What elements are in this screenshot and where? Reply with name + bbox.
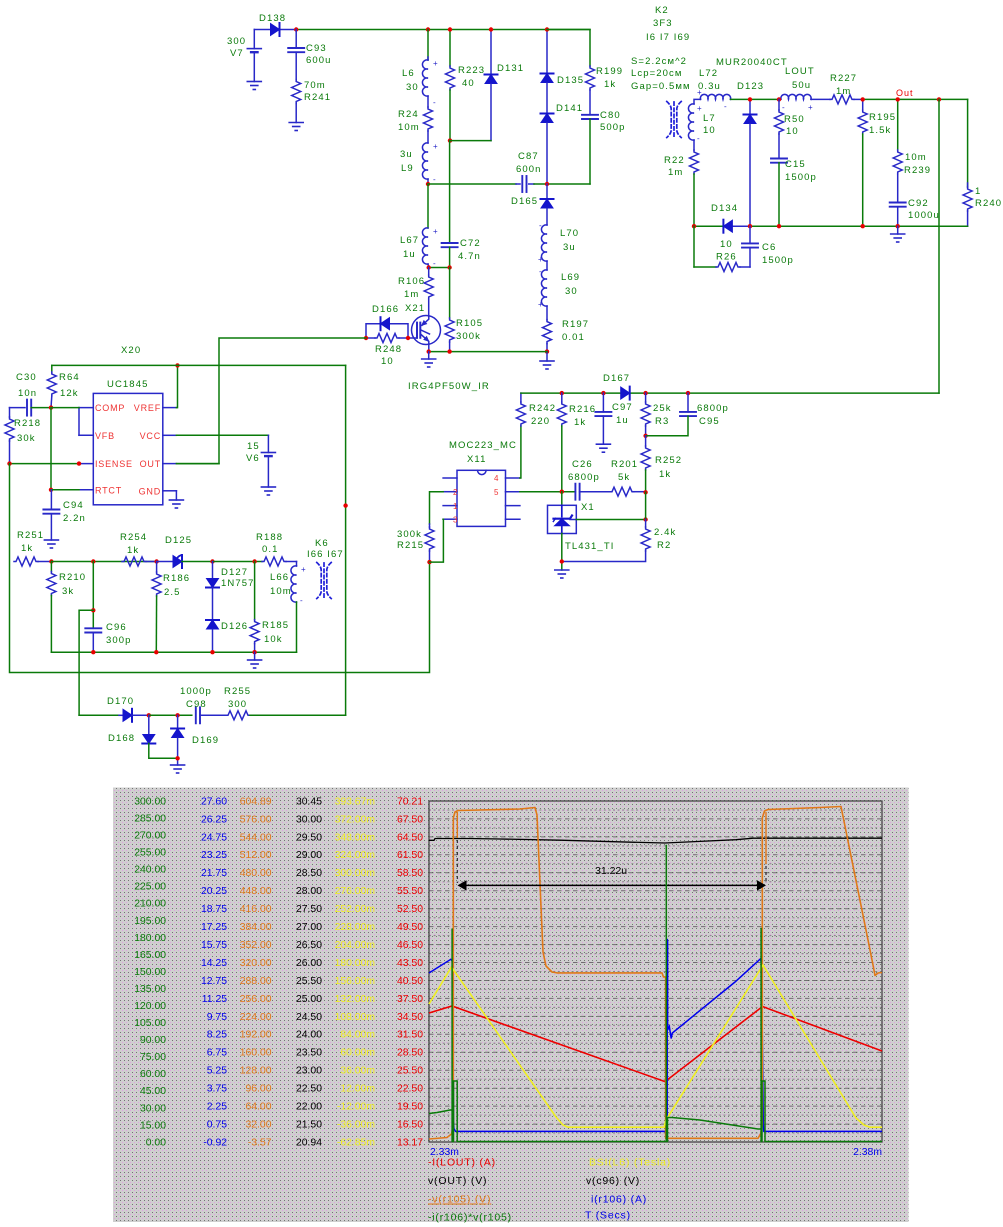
svg-text:70.21: 70.21 [397, 796, 423, 807]
svg-text:Lcp=20cм: Lcp=20cм [631, 68, 683, 79]
ground under V6 [261, 487, 275, 495]
ground under R185 [248, 652, 262, 668]
junction node C96 bottom [91, 650, 95, 654]
ground under R241 [289, 123, 303, 131]
svg-text:v(c96) (V): v(c96) (V) [586, 1175, 640, 1187]
svg-text:108.00m: 108.00m [335, 1012, 375, 1023]
svg-text:D170: D170 [107, 696, 134, 707]
svg-text:10m: 10m [905, 152, 927, 163]
ground under TL431 [555, 570, 569, 578]
svg-text:10k: 10k [264, 634, 283, 645]
svg-text:D125: D125 [165, 535, 192, 546]
svg-text:49.50: 49.50 [397, 922, 423, 933]
svg-text:1k: 1k [604, 79, 616, 90]
svg-text:27.60: 27.60 [201, 796, 227, 807]
svg-text:24.75: 24.75 [201, 832, 227, 843]
svg-text:61.50: 61.50 [397, 850, 423, 861]
resistor R210 [47, 562, 86, 653]
svg-text:C95: C95 [699, 416, 720, 427]
svg-text:L6: L6 [402, 68, 415, 79]
svg-text:1: 1 [453, 502, 458, 511]
svg-text:1m: 1m [668, 167, 683, 178]
transformer K6 core [307, 538, 344, 599]
svg-text:MUR20040CT: MUR20040CT [716, 57, 788, 68]
wire VREF to top rail [176, 365, 177, 407]
svg-text:5.25: 5.25 [207, 1066, 227, 1077]
resistor R2 [562, 520, 677, 562]
svg-text:RTCT: RTCT [95, 486, 122, 496]
ground under C94 [44, 540, 58, 548]
trace v(OUT) black [429, 838, 882, 843]
svg-text:R254: R254 [120, 532, 147, 543]
svg-text:R50: R50 [784, 114, 805, 125]
svg-text:L69: L69 [561, 272, 580, 283]
svg-text:R215: R215 [397, 540, 424, 551]
svg-text:L70: L70 [560, 228, 579, 239]
ground under C97 [596, 444, 610, 452]
junction node ISENSE pin [77, 461, 81, 465]
svg-text:84.00m: 84.00m [340, 1030, 375, 1041]
capacitor C95 [646, 393, 729, 436]
wire out rail [863, 98, 968, 100]
svg-text:R251: R251 [17, 530, 44, 541]
svg-text:18.75: 18.75 [201, 904, 227, 915]
svg-text:R185: R185 [262, 620, 289, 631]
svg-text:R201: R201 [611, 459, 638, 470]
junction node RTCT [49, 488, 53, 492]
diode D123 [737, 81, 764, 226]
resistor R3 [641, 393, 672, 436]
svg-text:15.00: 15.00 [140, 1120, 166, 1131]
svg-text:135.00: 135.00 [134, 984, 166, 995]
svg-text:6800p: 6800p [697, 403, 729, 414]
svg-text:256.00: 256.00 [240, 994, 272, 1005]
junction node VREF rail [175, 363, 179, 367]
svg-text:C92: C92 [908, 198, 929, 209]
svg-text:-: - [539, 221, 542, 230]
svg-text:576.00: 576.00 [240, 814, 272, 825]
junction node D166 right [406, 336, 410, 340]
resistor R64 [47, 365, 79, 407]
junction node D169 top [175, 713, 179, 717]
svg-text:512.00: 512.00 [240, 850, 272, 861]
wire pin5 row [520, 491, 610, 493]
resistor R186 [152, 562, 190, 653]
svg-text:105.00: 105.00 [134, 1018, 166, 1029]
svg-text:11.25: 11.25 [202, 994, 227, 1005]
svg-text:4.7n: 4.7n [458, 251, 481, 262]
junction node ISENSE left [7, 461, 11, 465]
svg-text:D166: D166 [372, 304, 399, 315]
diode D169 [171, 715, 219, 765]
junction node C93 top [294, 27, 298, 31]
inductor L72 [694, 68, 731, 111]
junction node D131 top [489, 27, 493, 31]
svg-text:D169: D169 [192, 735, 219, 746]
junction node R188 left [252, 559, 256, 563]
source V7 [227, 30, 261, 82]
svg-text:352.00: 352.00 [240, 940, 272, 951]
junction node R251 right [49, 559, 53, 563]
junction node C96 tap [91, 608, 95, 612]
resistor R199 [547, 30, 623, 91]
svg-text:60.00m: 60.00m [340, 1048, 375, 1059]
svg-text:224.00: 224.00 [240, 1012, 272, 1023]
transistor X1 TL431 [548, 492, 595, 534]
svg-text:604.89: 604.89 [240, 796, 272, 807]
op-amp U1 UC1845 box [79, 393, 176, 504]
junction node C97 top [601, 391, 605, 395]
capacitor C96 [85, 562, 131, 653]
wire output bottom rail [694, 225, 968, 227]
junction node R254 right [154, 559, 158, 563]
svg-text:225.00: 225.00 [134, 882, 166, 893]
svg-text:VCC: VCC [140, 431, 161, 441]
svg-text:1k: 1k [574, 417, 586, 428]
svg-text:X20: X20 [121, 345, 141, 356]
svg-text:C87: C87 [518, 151, 539, 162]
junction node D135 top [545, 27, 549, 31]
orange axis scale [240, 796, 272, 1148]
svg-text:32.00: 32.00 [245, 1120, 271, 1131]
resistor R50 [775, 99, 805, 137]
capacitor C72 [442, 141, 481, 268]
wire left sense column [10, 464, 430, 673]
wire L67-C72 row [429, 267, 450, 269]
svg-text:3k: 3k [62, 586, 74, 597]
svg-text:D135: D135 [557, 75, 584, 86]
junction node R215 bottom [427, 560, 431, 564]
svg-text:372.00m: 372.00m [335, 814, 375, 825]
svg-text:1000p: 1000p [180, 686, 212, 697]
resistor R215 [397, 524, 434, 562]
svg-text:50u: 50u [792, 80, 811, 91]
svg-text:C6: C6 [762, 242, 776, 253]
svg-text:75.00: 75.00 [140, 1052, 166, 1063]
resistor R22 [664, 140, 699, 226]
svg-text:D123: D123 [737, 81, 764, 92]
svg-text:29.50: 29.50 [296, 832, 322, 843]
wire Out feedback vertical [938, 99, 940, 393]
svg-text:285.00: 285.00 [134, 813, 166, 824]
svg-text:R195: R195 [869, 112, 896, 123]
svg-text:C30: C30 [16, 372, 37, 383]
svg-text:30.00: 30.00 [140, 1103, 166, 1114]
svg-text:+: + [301, 565, 306, 574]
svg-text:R218: R218 [14, 418, 41, 429]
svg-text:26.25: 26.25 [201, 814, 227, 825]
svg-text:40: 40 [462, 78, 475, 89]
svg-text:34.50: 34.50 [397, 1012, 423, 1023]
svg-text:220: 220 [531, 416, 550, 427]
svg-text:448.00: 448.00 [240, 886, 272, 897]
svg-text:v(OUT) (V): v(OUT) (V) [428, 1175, 487, 1187]
svg-text:IRG4PF50W_IR: IRG4PF50W_IR [408, 381, 490, 392]
svg-text:R252: R252 [655, 455, 682, 466]
svg-text:-0.92: -0.92 [203, 1137, 227, 1148]
wire gate drive [176, 338, 366, 464]
resistor R242 [516, 393, 556, 427]
svg-text:R239: R239 [904, 165, 931, 176]
svg-text:324.00m: 324.00m [335, 850, 375, 861]
junction node C87 right [545, 182, 549, 186]
transistor X21 IGBT [405, 303, 441, 352]
svg-text:L66: L66 [270, 572, 289, 583]
svg-text:160.00: 160.00 [240, 1048, 272, 1059]
resistor R26 snubber [694, 226, 750, 271]
svg-text:288.00: 288.00 [240, 976, 272, 987]
svg-text:26.00: 26.00 [296, 958, 322, 969]
svg-text:-v(r105) (V): -v(r105) (V) [428, 1194, 491, 1206]
svg-text:393.67m: 393.67m [335, 796, 375, 807]
resistor R252 [641, 436, 682, 493]
svg-text:27.00: 27.00 [296, 922, 322, 933]
svg-text:D167: D167 [603, 373, 630, 384]
svg-text:228.00m: 228.00m [335, 922, 375, 933]
svg-text:255.00: 255.00 [134, 848, 166, 859]
svg-text:3.75: 3.75 [207, 1084, 227, 1095]
svg-text:22.50: 22.50 [397, 1084, 423, 1095]
junction node Out feedback tap [937, 97, 941, 101]
svg-text:23.00: 23.00 [296, 1066, 322, 1077]
svg-text:300k: 300k [397, 529, 422, 540]
junction node LOUT left [777, 97, 781, 101]
junction node L6 top [426, 27, 430, 31]
svg-text:30.00: 30.00 [296, 814, 322, 825]
svg-text:12.00m: 12.00m [340, 1084, 375, 1095]
svg-text:1: 1 [975, 186, 981, 197]
node Out [896, 88, 914, 98]
svg-text:1k: 1k [659, 469, 671, 480]
svg-text:MOC223_MC: MOC223_MC [449, 440, 517, 451]
svg-text:5k: 5k [618, 472, 630, 483]
svg-text:0.00: 0.00 [146, 1137, 166, 1148]
junction node R195 top [861, 97, 865, 101]
svg-text:2.5: 2.5 [164, 587, 181, 598]
svg-text:+: + [697, 88, 702, 97]
svg-text:21.75: 21.75 [201, 868, 227, 879]
resistor R197 [543, 306, 590, 352]
junction node R197 bottom [545, 349, 549, 353]
resistor R251 [14, 530, 51, 566]
diode D127 1N757 [206, 562, 255, 621]
svg-text:LOUT: LOUT [785, 66, 815, 77]
capacitor C93 [288, 30, 331, 67]
svg-text:R3: R3 [655, 416, 669, 427]
resistor R255 [224, 686, 346, 720]
trace -I(LOUT) red [429, 1006, 882, 1082]
svg-text:+: + [538, 300, 543, 309]
svg-text:55.50: 55.50 [397, 886, 423, 897]
svg-text:20.25: 20.25 [201, 886, 227, 897]
svg-text:180.00m: 180.00m [335, 958, 375, 969]
svg-text:COMP: COMP [95, 403, 125, 413]
svg-text:2.4k: 2.4k [654, 527, 676, 538]
wire to R188 [213, 561, 263, 563]
label K2 transformer texts [631, 5, 691, 92]
svg-text:25.50: 25.50 [397, 1066, 423, 1077]
svg-text:+: + [433, 59, 438, 68]
svg-text:R241: R241 [304, 92, 331, 103]
resistor R24 [398, 96, 433, 133]
svg-text:V6: V6 [246, 453, 260, 464]
inductor L9 [400, 131, 438, 184]
wire top rail X20 [52, 364, 346, 366]
svg-text:31.50: 31.50 [397, 1030, 423, 1041]
svg-text:8.25: 8.25 [207, 1030, 227, 1041]
red axis scale [397, 796, 423, 1148]
svg-text:L7: L7 [703, 113, 716, 124]
diode D125 [157, 535, 213, 568]
svg-text:-: - [724, 102, 727, 111]
svg-text:12.75: 12.75 [201, 976, 227, 987]
svg-text:-: - [300, 596, 303, 605]
svg-text:132.00m: 132.00m [335, 994, 375, 1005]
svg-text:S=2.2cм^2: S=2.2cм^2 [631, 56, 687, 67]
svg-text:1500p: 1500p [785, 172, 817, 183]
svg-text:90.00: 90.00 [140, 1035, 166, 1046]
svg-text:0.1: 0.1 [262, 544, 279, 555]
diode D167 [603, 373, 630, 400]
junction node R2 top [643, 517, 647, 521]
svg-text:C98: C98 [186, 699, 207, 710]
svg-text:C93: C93 [306, 43, 327, 54]
svg-text:20.94: 20.94 [296, 1137, 322, 1148]
svg-text:252.00m: 252.00m [335, 904, 375, 915]
junction node R216 top [560, 391, 564, 395]
svg-text:-: - [433, 98, 436, 107]
junction node D169 gnd [175, 756, 179, 760]
svg-text:12k: 12k [60, 388, 79, 399]
svg-text:25k: 25k [653, 403, 672, 414]
svg-text:544.00: 544.00 [240, 832, 272, 843]
inductor L70 [538, 221, 579, 264]
svg-text:300: 300 [228, 699, 247, 710]
junction node IGBT emitter [427, 349, 431, 353]
svg-text:24.50: 24.50 [296, 1012, 322, 1023]
svg-text:10n: 10n [18, 388, 37, 399]
junction node C15 bottom [777, 224, 781, 228]
svg-text:1u: 1u [403, 249, 416, 260]
svg-text:480.00: 480.00 [240, 868, 272, 879]
plot grid [429, 810, 882, 1133]
svg-text:23.50: 23.50 [296, 1048, 322, 1059]
svg-text:+: + [808, 103, 813, 112]
svg-text:1m: 1m [404, 289, 419, 300]
diode D131 [485, 30, 525, 141]
blue axis scale [201, 796, 227, 1148]
svg-text:3F3: 3F3 [653, 18, 673, 29]
svg-text:-: - [539, 267, 542, 276]
capacitor C80 [582, 90, 626, 184]
svg-text:30.45: 30.45 [296, 796, 322, 807]
svg-text:156.00m: 156.00m [335, 976, 375, 987]
svg-text:10: 10 [703, 125, 716, 136]
svg-text:C97: C97 [612, 402, 633, 413]
source V6 [176, 435, 275, 487]
resistor R218 [5, 408, 41, 464]
wire pin4 to R242 [520, 426, 521, 478]
wire RTCT to pin [51, 489, 79, 491]
wire ISENSE row [10, 463, 80, 465]
svg-text:10: 10 [720, 239, 733, 250]
svg-text:64.50: 64.50 [397, 832, 423, 843]
junction node R186 bottom [154, 650, 158, 654]
svg-text:X21: X21 [405, 303, 425, 314]
svg-text:4: 4 [494, 474, 499, 483]
diode D126 [206, 620, 248, 652]
svg-text:30k: 30k [17, 433, 36, 444]
svg-text:3: 3 [453, 516, 458, 525]
svg-text:240.00: 240.00 [134, 865, 166, 876]
svg-text:0.75: 0.75 [207, 1120, 227, 1131]
black axis scale [296, 796, 322, 1148]
inductor LOUT [781, 66, 815, 112]
wire feedback top rail [521, 392, 939, 394]
capacitor C94 [43, 490, 85, 540]
svg-text:3u: 3u [563, 242, 576, 253]
trace measurement cursors [457, 812, 766, 883]
svg-text:BSI(L6) (Tesla): BSI(L6) (Tesla) [589, 1157, 671, 1169]
diode D165 [511, 184, 554, 225]
svg-text:416.00: 416.00 [240, 904, 272, 915]
svg-text:ISENSE: ISENSE [95, 459, 133, 469]
svg-text:D134: D134 [711, 203, 738, 214]
svg-text:R216: R216 [569, 404, 596, 415]
wire COMP-RTCT vertical [50, 408, 52, 490]
svg-text:VREF: VREF [134, 403, 161, 413]
svg-text:D165: D165 [511, 196, 538, 207]
svg-text:K2: K2 [655, 5, 669, 16]
junction node R3 bottom [643, 434, 647, 438]
svg-text:i(r106) (A): i(r106) (A) [591, 1194, 647, 1206]
svg-text:28.50: 28.50 [397, 1048, 423, 1059]
capacitor C92 [890, 174, 940, 226]
svg-text:R2: R2 [657, 540, 671, 551]
svg-text:21.50: 21.50 [296, 1120, 322, 1131]
svg-text:0.01: 0.01 [562, 332, 585, 343]
wire top rail from V7 through D138 to R199 [254, 29, 590, 31]
svg-text:R227: R227 [830, 73, 857, 84]
svg-text:45.00: 45.00 [140, 1086, 166, 1097]
junction node TL431 gnd [560, 559, 564, 563]
wire D168-C98 [149, 714, 192, 716]
capacitor C30 [10, 372, 52, 416]
svg-text:25.50: 25.50 [296, 976, 322, 987]
svg-text:27.50: 27.50 [296, 904, 322, 915]
svg-text:-: - [697, 134, 700, 143]
diode D170 [79, 696, 149, 722]
svg-text:R210: R210 [59, 572, 86, 583]
diode D134 [711, 203, 738, 233]
svg-text:22.50: 22.50 [296, 1084, 322, 1095]
junction node L9 bottom [426, 182, 430, 186]
svg-text:500p: 500p [600, 122, 626, 133]
svg-text:X1: X1 [581, 502, 595, 513]
svg-text:R199: R199 [596, 66, 623, 77]
svg-text:30: 30 [565, 286, 578, 297]
inductor L66 [270, 562, 306, 653]
capacitor C87 [516, 151, 542, 192]
svg-text:R255: R255 [224, 686, 251, 697]
ground GND pin [169, 491, 183, 508]
wire COMP to COMP pin [51, 407, 79, 409]
svg-text:1000u: 1000u [908, 210, 940, 221]
svg-text:R223: R223 [458, 65, 485, 76]
svg-text:195.00: 195.00 [134, 916, 166, 927]
svg-text:I66 I67: I66 I67 [307, 549, 344, 560]
svg-text:210.00: 210.00 [134, 899, 166, 910]
